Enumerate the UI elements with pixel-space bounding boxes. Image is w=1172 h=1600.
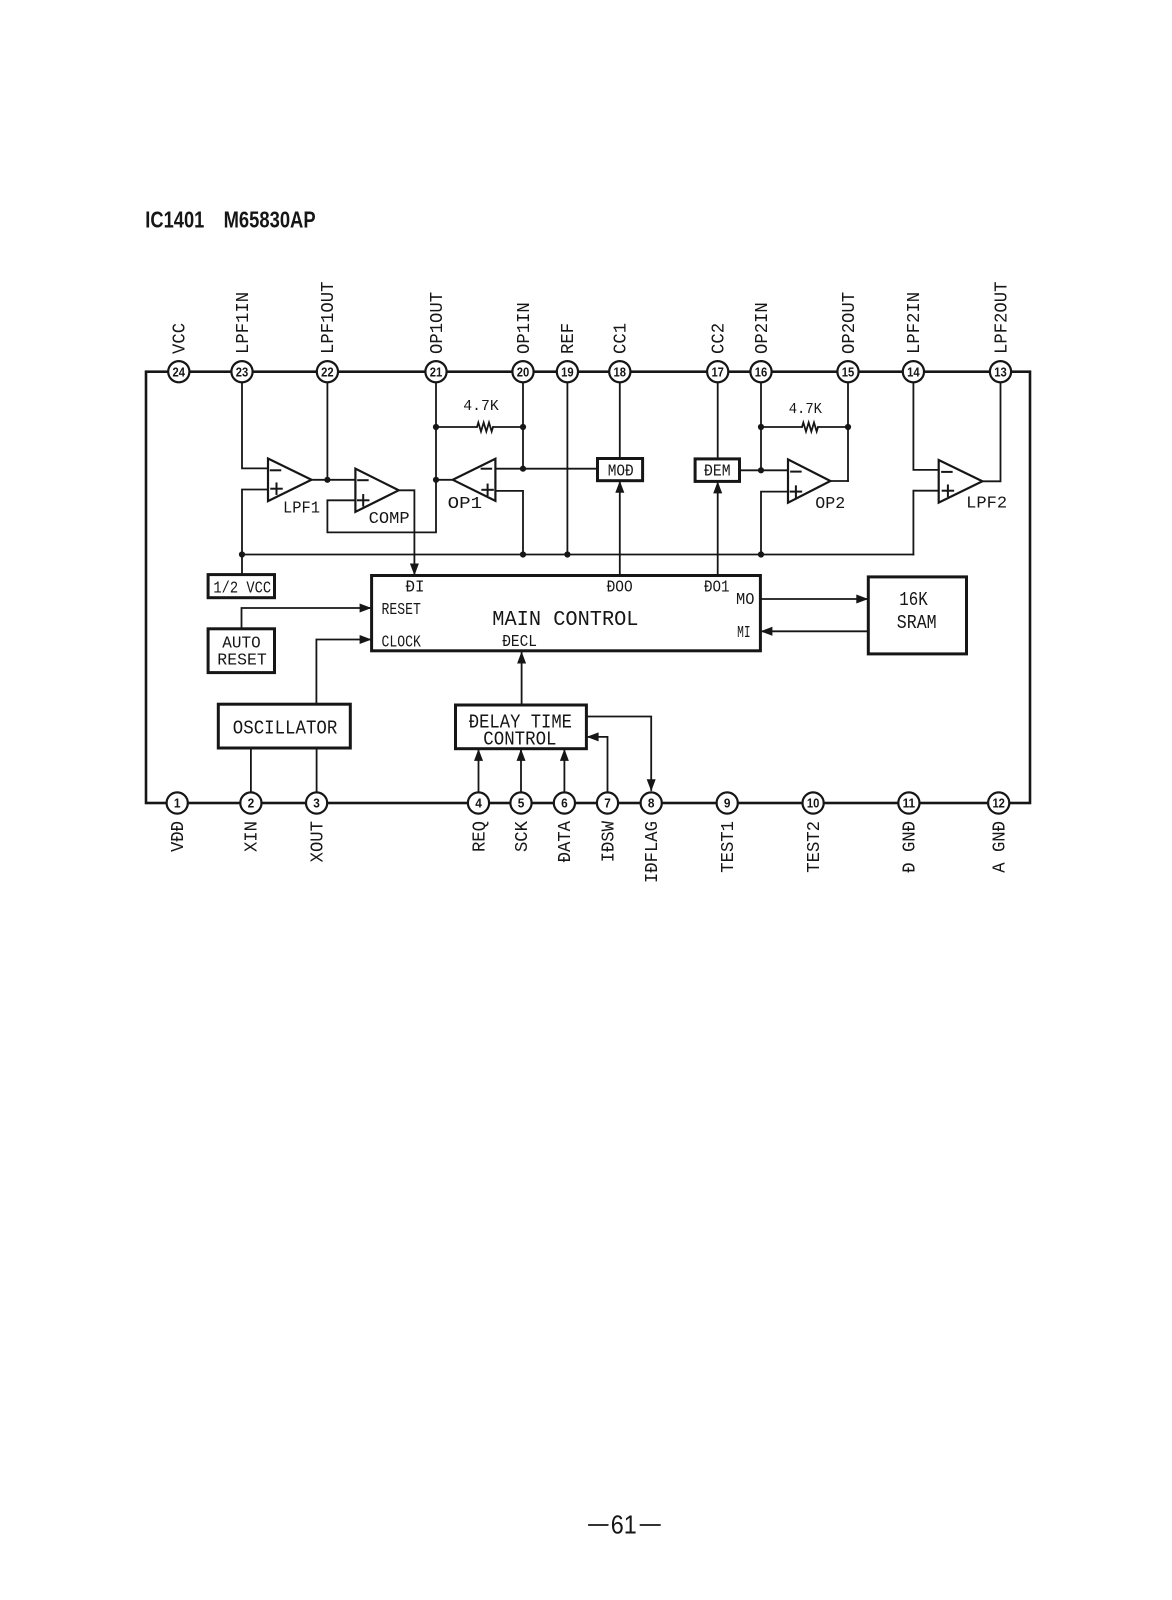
svg-text:5: 5 bbox=[518, 796, 525, 811]
pin 15 OP2OUT bbox=[837, 292, 859, 383]
svg-text:7: 7 bbox=[604, 796, 611, 811]
svg-text:ĐEM: ĐEM bbox=[704, 462, 731, 481]
svg-text:IC1401: IC1401 bbox=[145, 206, 204, 232]
wire pin2 XIN to OSCILLATOR bbox=[250, 748, 252, 793]
op-amp LPF1 bbox=[268, 459, 320, 519]
title IC1401 M65830AP bbox=[145, 206, 315, 232]
box 1/2 VCC bbox=[208, 575, 274, 599]
svg-text:VĐĐ: VĐĐ bbox=[169, 821, 189, 852]
svg-text:CLOCK: CLOCK bbox=[382, 633, 421, 652]
wire pin15 to OP2 output bbox=[847, 372, 849, 481]
svg-text:OP2: OP2 bbox=[815, 495, 845, 514]
svg-text:21: 21 bbox=[430, 364, 443, 379]
pin 6 ĐATA bbox=[554, 792, 576, 862]
svg-text:MO: MO bbox=[736, 590, 755, 609]
pin 11 Đ GNĐ bbox=[898, 792, 920, 872]
svg-text:LPF2: LPF2 bbox=[966, 495, 1007, 514]
svg-text:11: 11 bbox=[903, 796, 916, 811]
pin 12 A GNĐ bbox=[988, 792, 1010, 872]
svg-text:12: 12 bbox=[992, 796, 1005, 811]
pin 4 REQ bbox=[468, 792, 490, 852]
svg-text:14: 14 bbox=[907, 364, 920, 379]
svg-text:REQ: REQ bbox=[470, 821, 490, 852]
wire MAIN CONTROL DO1 to DEM bbox=[713, 481, 722, 575]
svg-text:ĐO1: ĐO1 bbox=[704, 578, 730, 597]
svg-text:SCK: SCK bbox=[513, 821, 533, 852]
svg-text:18: 18 bbox=[614, 364, 627, 379]
pin 24 VCC bbox=[168, 323, 190, 383]
pin 10 TEST2 bbox=[803, 792, 825, 872]
svg-text:XIN: XIN bbox=[243, 821, 263, 852]
svg-text:Đ GNĐ: Đ GNĐ bbox=[901, 821, 921, 873]
svg-text:LPF2OUT: LPF2OUT bbox=[992, 281, 1012, 354]
svg-text:3: 3 bbox=[313, 796, 320, 811]
svg-text:CC1: CC1 bbox=[612, 323, 632, 354]
svg-text:OP2OUT: OP2OUT bbox=[840, 292, 860, 354]
svg-text:13: 13 bbox=[994, 364, 1007, 379]
pin 16 OP2IN bbox=[750, 302, 772, 382]
wire MO MAIN CONTROL to SRAM bbox=[760, 595, 868, 604]
wire pin13 to LPF2 output bbox=[982, 372, 1000, 482]
wire pin6 DATA to DELAY TIME CONTROL bbox=[560, 749, 569, 793]
svg-text:IĐSW: IĐSW bbox=[599, 821, 619, 863]
wire pin5 SCK to DELAY TIME CONTROL bbox=[517, 749, 526, 793]
svg-text:ĐECL: ĐECL bbox=[502, 632, 537, 651]
svg-text:22: 22 bbox=[321, 364, 334, 379]
svg-text:ĐI: ĐI bbox=[406, 578, 425, 597]
svg-text:TEST1: TEST1 bbox=[719, 821, 739, 873]
wire DELAY TIME CONTROL DECL to MAIN CONTROL bbox=[517, 652, 526, 706]
svg-text:M65830AP: M65830AP bbox=[224, 206, 316, 232]
pin 22 LPF1OUT bbox=[317, 281, 339, 382]
svg-text:CONTROL: CONTROL bbox=[483, 728, 556, 750]
svg-text:2: 2 bbox=[248, 796, 255, 811]
svg-text:8: 8 bbox=[648, 796, 655, 811]
wire MAIN CONTROL DOO to MOD bbox=[615, 481, 624, 576]
pin 21 OP1OUT bbox=[425, 292, 447, 383]
wire AUTO RESET to MAIN CONTROL RESET bbox=[242, 604, 372, 629]
wire DELAY TIME CONTROL to pin8 IDFLAG bbox=[586, 717, 655, 792]
wire pin19 REF to bias rail bbox=[566, 372, 568, 555]
wire COMP noninverting feedback from OP1 output bbox=[327, 477, 439, 533]
svg-text:1: 1 bbox=[174, 796, 181, 811]
svg-text:6: 6 bbox=[561, 796, 568, 811]
svg-text:IĐFLAG: IĐFLAG bbox=[643, 821, 663, 883]
wire pin23 to LPF1 inverting input bbox=[242, 372, 268, 469]
svg-text:LPF1OUT: LPF1OUT bbox=[319, 281, 339, 354]
resistor R1 4.7K feedback OP1 bbox=[433, 398, 526, 432]
svg-text:61: 61 bbox=[611, 1510, 637, 1540]
svg-text:COMP: COMP bbox=[369, 510, 410, 529]
svg-text:A GNĐ: A GNĐ bbox=[991, 821, 1011, 873]
svg-text:LPF1: LPF1 bbox=[283, 500, 320, 519]
svg-text:16K: 16K bbox=[899, 589, 928, 611]
svg-text:17: 17 bbox=[711, 364, 724, 379]
wire pin22 to LPF1 output node bbox=[326, 372, 328, 480]
wire pin18 CC1 to MOD top bbox=[619, 372, 621, 459]
pin 2 XIN bbox=[240, 792, 262, 852]
svg-text:16: 16 bbox=[755, 364, 768, 379]
pin 19 REF bbox=[557, 323, 579, 382]
svg-text:4.7K: 4.7K bbox=[463, 398, 498, 415]
svg-text:10: 10 bbox=[807, 796, 820, 811]
wire OP2 output to pin15 line bbox=[830, 480, 848, 482]
svg-text:LPF1IN: LPF1IN bbox=[234, 292, 254, 354]
pin 23 LPF1IN bbox=[231, 292, 253, 382]
resistor R2 4.7K feedback OP2 bbox=[758, 401, 851, 432]
pin 20 OP1IN bbox=[512, 302, 534, 382]
pin 17 CC2 bbox=[707, 323, 729, 382]
wire OSCILLATOR to MAIN CONTROL CLOCK bbox=[316, 635, 371, 704]
svg-text:4.7K: 4.7K bbox=[789, 401, 822, 418]
pin 1 VĐĐ bbox=[167, 792, 189, 852]
svg-text:RESET: RESET bbox=[217, 652, 266, 671]
svg-text:24: 24 bbox=[173, 364, 186, 379]
wire OP2 noninverting input to bias rail bbox=[758, 492, 788, 558]
wire COMP output to MAIN CONTROL DI bbox=[399, 490, 419, 575]
pin 8 IĐFLAG bbox=[641, 792, 663, 883]
pin 14 LPF2IN bbox=[903, 292, 925, 382]
box DEM bbox=[695, 459, 739, 482]
svg-text:CC2: CC2 bbox=[710, 323, 730, 354]
box AUTO RESET bbox=[208, 629, 274, 673]
wire OP1 noninverting input to bias rail bbox=[495, 491, 526, 558]
page number 61 bbox=[589, 1510, 660, 1540]
wire pin7 IDSW to DELAY TIME CONTROL bbox=[587, 732, 608, 793]
svg-text:23: 23 bbox=[236, 364, 249, 379]
wire pin14 to LPF2 inverting input bbox=[913, 372, 938, 470]
pin 18 CC1 bbox=[609, 323, 631, 382]
wire pin21 to OP1 output node bbox=[435, 372, 437, 480]
svg-text:OP1: OP1 bbox=[448, 495, 482, 514]
IC outer boundary box bbox=[146, 372, 1030, 803]
svg-text:LPF2IN: LPF2IN bbox=[905, 292, 925, 354]
op-amp LPF2 bbox=[939, 460, 1007, 514]
box OSCILLATOR bbox=[218, 704, 350, 748]
pin 5 SCK bbox=[510, 792, 532, 852]
op-amp OP1 bbox=[448, 459, 496, 514]
svg-text:4: 4 bbox=[475, 796, 482, 811]
svg-text:RESET: RESET bbox=[382, 600, 421, 619]
pin 3 XOUT bbox=[306, 792, 328, 862]
pin 13 LPF2OUT bbox=[990, 281, 1012, 382]
svg-text:15: 15 bbox=[842, 364, 855, 379]
box 16K SRAM bbox=[868, 577, 966, 654]
op-amp OP2 bbox=[788, 459, 845, 514]
svg-text:OP1OUT: OP1OUT bbox=[428, 292, 448, 354]
svg-text:9: 9 bbox=[724, 796, 731, 811]
box MAIN CONTROL bbox=[372, 576, 761, 652]
wire pin3 XOUT to OSCILLATOR bbox=[316, 748, 318, 793]
svg-text:MI: MI bbox=[737, 623, 751, 642]
wire OP1 inverting input line to MOD bbox=[495, 466, 597, 472]
svg-text:XOUT: XOUT bbox=[308, 821, 328, 863]
svg-text:19: 19 bbox=[561, 364, 574, 379]
svg-text:TEST2: TEST2 bbox=[805, 821, 825, 873]
svg-text:MOĐ: MOĐ bbox=[608, 462, 634, 481]
svg-text:ĐOO: ĐOO bbox=[607, 578, 633, 597]
wire pin20 to OP1 inverting line bbox=[522, 372, 524, 469]
svg-text:ĐATA: ĐATA bbox=[556, 821, 576, 863]
svg-text:1/2 VCC: 1/2 VCC bbox=[213, 579, 271, 598]
svg-text:OP1IN: OP1IN bbox=[515, 302, 535, 354]
wire pin17 CC2 to DEM top bbox=[717, 372, 719, 459]
box DELAY TIME CONTROL bbox=[456, 705, 587, 750]
svg-text:OP2IN: OP2IN bbox=[753, 302, 773, 354]
svg-text:SRAM: SRAM bbox=[897, 612, 937, 634]
wire pin16 to OP2 inverting line bbox=[760, 372, 762, 471]
pin 7 IĐSW bbox=[597, 792, 619, 862]
wire MI SRAM to MAIN CONTROL bbox=[760, 627, 868, 636]
wire LPF1 noninverting input to half-VCC node bbox=[239, 490, 268, 575]
svg-text:OSCILLATOR: OSCILLATOR bbox=[233, 718, 337, 740]
box MOD bbox=[598, 459, 643, 482]
op-amp COMP bbox=[355, 469, 409, 529]
wire DEM output to OP2 inverting input bbox=[740, 467, 789, 473]
pin 9 TEST1 bbox=[717, 792, 739, 872]
wire bias rail to LPF2 noninverting input bbox=[913, 491, 938, 555]
wire LPF1 output to COMP input bbox=[312, 477, 356, 483]
svg-text:REF: REF bbox=[559, 323, 579, 354]
svg-text:20: 20 bbox=[517, 364, 530, 379]
wire pin4 REQ to DELAY TIME CONTROL bbox=[474, 749, 483, 793]
wire OP1 output to node bbox=[436, 479, 453, 481]
svg-text:VCC: VCC bbox=[171, 323, 191, 354]
svg-text:MAIN CONTROL: MAIN CONTROL bbox=[492, 609, 638, 632]
bias rail 1/2 VCC bbox=[242, 551, 913, 557]
